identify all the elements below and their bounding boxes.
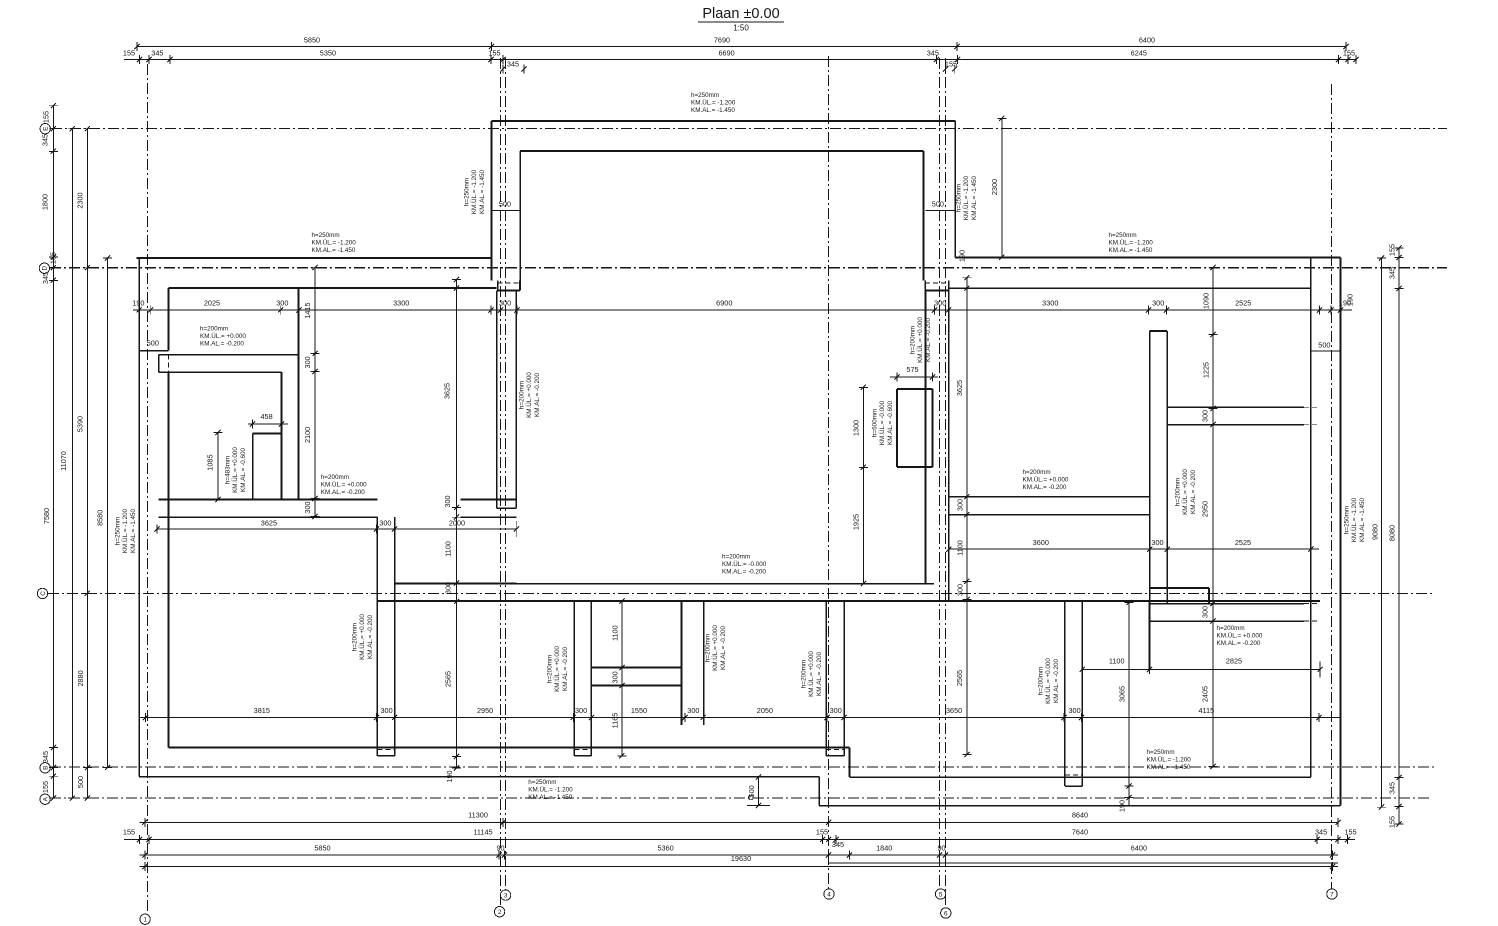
svg-text:500: 500 bbox=[932, 200, 944, 209]
svg-text:KM.ÜL.= -1.200: KM.ÜL.= -1.200 bbox=[962, 175, 970, 220]
svg-text:1840: 1840 bbox=[876, 844, 892, 853]
svg-text:155: 155 bbox=[1388, 244, 1397, 256]
svg-text:155: 155 bbox=[48, 252, 57, 264]
svg-text:KM.AL.= -0.200: KM.AL.= -0.200 bbox=[720, 626, 727, 670]
svg-text:300: 300 bbox=[1069, 706, 1081, 715]
svg-text:h=200mm: h=200mm bbox=[200, 326, 228, 333]
svg-text:E: E bbox=[43, 127, 50, 131]
svg-text:h=250mm: h=250mm bbox=[1344, 506, 1351, 534]
svg-text:KM.AL.= -1.450: KM.AL.= -1.450 bbox=[1359, 498, 1366, 542]
svg-text:155: 155 bbox=[945, 60, 957, 69]
svg-text:190: 190 bbox=[1346, 294, 1355, 306]
svg-text:KM.ÜL.= -0.000: KM.ÜL.= -0.000 bbox=[722, 560, 767, 568]
svg-text:h=250mm: h=250mm bbox=[1147, 749, 1175, 756]
svg-text:300: 300 bbox=[381, 706, 393, 715]
svg-text:6: 6 bbox=[944, 910, 948, 917]
svg-text:h=250mm: h=250mm bbox=[115, 517, 122, 545]
svg-text:6245: 6245 bbox=[1131, 49, 1147, 58]
svg-text:KM.AL.= -0.200: KM.AL.= -0.200 bbox=[1190, 470, 1197, 514]
svg-text:345: 345 bbox=[927, 49, 939, 58]
svg-text:300: 300 bbox=[303, 501, 312, 513]
svg-text:KM.ÜL.= -1.200: KM.ÜL.= -1.200 bbox=[1147, 756, 1192, 764]
svg-text:KM.AL.= -0.200: KM.AL.= -0.200 bbox=[321, 489, 365, 496]
svg-text:190: 190 bbox=[445, 770, 454, 782]
svg-text:155: 155 bbox=[123, 49, 135, 58]
svg-text:3600: 3600 bbox=[1033, 538, 1049, 547]
svg-text:6900: 6900 bbox=[716, 299, 732, 308]
svg-text:345: 345 bbox=[151, 49, 163, 58]
svg-text:300: 300 bbox=[276, 299, 288, 308]
svg-text:2300: 2300 bbox=[76, 192, 85, 208]
svg-text:2100: 2100 bbox=[303, 427, 312, 443]
svg-text:KM.AL.= -1.450: KM.AL.= -1.450 bbox=[1109, 247, 1153, 254]
svg-text:1100: 1100 bbox=[444, 541, 453, 557]
svg-text:575: 575 bbox=[906, 365, 918, 374]
svg-text:h=200mm: h=200mm bbox=[519, 381, 526, 409]
svg-text:500: 500 bbox=[499, 200, 511, 209]
svg-text:h=200mm: h=200mm bbox=[1023, 469, 1051, 476]
svg-text:1800: 1800 bbox=[41, 194, 50, 210]
svg-text:h=250mm: h=250mm bbox=[1109, 232, 1137, 239]
svg-text:2565: 2565 bbox=[444, 671, 453, 687]
svg-text:1925: 1925 bbox=[852, 514, 861, 530]
svg-text:3: 3 bbox=[504, 893, 508, 900]
svg-text:300: 300 bbox=[934, 299, 946, 308]
svg-text:345: 345 bbox=[507, 60, 519, 69]
svg-text:KM.AL.= -0.200: KM.AL.= -0.200 bbox=[1053, 659, 1060, 703]
svg-text:7: 7 bbox=[1330, 891, 1334, 898]
svg-text:KM.AL.= -0.600: KM.AL.= -0.600 bbox=[240, 448, 247, 492]
svg-text:9080: 9080 bbox=[1371, 524, 1380, 540]
svg-text:155: 155 bbox=[488, 49, 500, 58]
svg-text:KM.AL.= -0.200: KM.AL.= -0.200 bbox=[1217, 640, 1261, 647]
svg-text:h=200mm: h=200mm bbox=[1175, 478, 1182, 506]
svg-text:1300: 1300 bbox=[852, 420, 861, 436]
svg-text:KM.AL.= -1.450: KM.AL.= -1.450 bbox=[528, 794, 572, 801]
svg-text:8580: 8580 bbox=[96, 510, 105, 526]
svg-text:KM.ÜL.= -0.000: KM.ÜL.= -0.000 bbox=[878, 400, 886, 445]
svg-text:11300: 11300 bbox=[468, 811, 488, 820]
svg-text:345: 345 bbox=[1315, 828, 1327, 837]
svg-text:C: C bbox=[40, 591, 47, 596]
svg-text:1100: 1100 bbox=[1109, 657, 1125, 666]
svg-text:1090: 1090 bbox=[1202, 293, 1211, 309]
svg-text:155: 155 bbox=[1345, 828, 1357, 837]
svg-text:300: 300 bbox=[687, 706, 699, 715]
svg-text:KM.AL.= -0.200: KM.AL.= -0.200 bbox=[1023, 484, 1067, 491]
svg-text:KM.ÜL.= -1.200: KM.ÜL.= -1.200 bbox=[121, 508, 129, 553]
svg-text:KM.ÜL.= +0.000: KM.ÜL.= +0.000 bbox=[200, 332, 246, 340]
svg-text:h=200mm: h=200mm bbox=[801, 660, 808, 688]
svg-text:300: 300 bbox=[444, 582, 453, 594]
svg-text:190: 190 bbox=[958, 250, 967, 262]
svg-text:8080: 8080 bbox=[1388, 525, 1397, 541]
svg-text:300: 300 bbox=[830, 706, 842, 715]
svg-text:KM.AL.= -1.450: KM.AL.= -1.450 bbox=[1147, 764, 1191, 771]
svg-text:300: 300 bbox=[303, 356, 312, 368]
svg-text:2025: 2025 bbox=[204, 299, 220, 308]
svg-text:h=200mm: h=200mm bbox=[321, 474, 349, 481]
svg-text:4115: 4115 bbox=[1198, 706, 1214, 715]
svg-text:KM.ÜL.= +0.000: KM.ÜL.= +0.000 bbox=[553, 646, 561, 692]
svg-text:KM.AL.= -1.450: KM.AL.= -1.450 bbox=[130, 509, 137, 553]
svg-text:KM.ÜL.= -1.200: KM.ÜL.= -1.200 bbox=[528, 786, 573, 794]
svg-text:KM.ÜL.= -1.200: KM.ÜL.= -1.200 bbox=[1350, 497, 1358, 542]
svg-text:2300: 2300 bbox=[990, 179, 999, 195]
svg-text:KM.ÜL.= +0.000: KM.ÜL.= +0.000 bbox=[321, 481, 367, 489]
svg-text:6400: 6400 bbox=[1131, 844, 1147, 853]
svg-text:1:50: 1:50 bbox=[733, 24, 749, 33]
svg-text:300: 300 bbox=[379, 519, 391, 528]
svg-text:3625: 3625 bbox=[443, 383, 452, 399]
svg-text:KM.AL.= -0.200: KM.AL.= -0.200 bbox=[367, 615, 374, 659]
svg-text:345: 345 bbox=[41, 134, 50, 146]
svg-text:5850: 5850 bbox=[314, 844, 330, 853]
svg-text:155: 155 bbox=[42, 111, 51, 123]
svg-text:11145: 11145 bbox=[473, 828, 492, 837]
svg-text:KM.ÜL.= +0.000: KM.ÜL.= +0.000 bbox=[1217, 632, 1263, 640]
svg-text:3300: 3300 bbox=[393, 299, 409, 308]
svg-text:11070: 11070 bbox=[59, 451, 68, 471]
svg-text:KM.ÜL.= +0.000: KM.ÜL.= +0.000 bbox=[1044, 658, 1052, 704]
svg-text:5390: 5390 bbox=[76, 416, 85, 432]
svg-text:KM.ÜL.= +0.000: KM.ÜL.= +0.000 bbox=[916, 317, 924, 363]
svg-text:300: 300 bbox=[1151, 538, 1163, 547]
svg-text:KM.AL.= -1.450: KM.AL.= -1.450 bbox=[971, 176, 978, 220]
svg-text:5360: 5360 bbox=[657, 844, 673, 853]
svg-text:D: D bbox=[42, 266, 49, 271]
svg-text:500: 500 bbox=[76, 776, 85, 788]
svg-text:KM.ÜL.= +0.000: KM.ÜL.= +0.000 bbox=[231, 447, 239, 493]
svg-text:KM.AL.= -0.600: KM.AL.= -0.600 bbox=[887, 401, 894, 445]
svg-text:300: 300 bbox=[956, 584, 965, 596]
svg-text:2525: 2525 bbox=[1235, 299, 1251, 308]
svg-text:5350: 5350 bbox=[320, 49, 336, 58]
svg-text:2880: 2880 bbox=[76, 670, 85, 686]
svg-text:300: 300 bbox=[1201, 410, 1210, 422]
svg-text:KM.ÜL.= +0.000: KM.ÜL.= +0.000 bbox=[358, 614, 366, 660]
svg-text:h=200mm: h=200mm bbox=[705, 634, 712, 662]
svg-text:300: 300 bbox=[1152, 299, 1164, 308]
svg-text:B: B bbox=[42, 766, 49, 770]
svg-text:1100: 1100 bbox=[611, 625, 620, 641]
svg-text:7690: 7690 bbox=[714, 36, 730, 45]
svg-text:90: 90 bbox=[937, 844, 945, 853]
svg-text:A: A bbox=[42, 796, 49, 801]
svg-text:3625: 3625 bbox=[261, 519, 277, 528]
svg-text:345: 345 bbox=[1388, 782, 1397, 794]
svg-text:1100: 1100 bbox=[956, 540, 965, 556]
svg-text:KM.ÜL.= -1.200: KM.ÜL.= -1.200 bbox=[470, 169, 478, 214]
svg-text:155: 155 bbox=[816, 828, 828, 837]
svg-text:1225: 1225 bbox=[1202, 362, 1211, 378]
svg-text:1550: 1550 bbox=[631, 706, 647, 715]
svg-text:h=600mm: h=600mm bbox=[872, 409, 879, 437]
svg-text:3300: 3300 bbox=[1042, 299, 1058, 308]
svg-text:190: 190 bbox=[132, 299, 144, 308]
svg-text:KM.AL.= -0.200: KM.AL.= -0.200 bbox=[722, 569, 766, 576]
svg-text:h=200mm: h=200mm bbox=[352, 623, 359, 651]
svg-text:155: 155 bbox=[123, 828, 135, 837]
svg-text:345: 345 bbox=[41, 751, 50, 763]
svg-text:1: 1 bbox=[143, 917, 147, 924]
svg-text:5850: 5850 bbox=[304, 36, 320, 45]
svg-text:KM.AL.= -0.200: KM.AL.= -0.200 bbox=[534, 373, 541, 417]
svg-text:KM.AL.= -0.200: KM.AL.= -0.200 bbox=[562, 647, 569, 691]
svg-text:h=200mm: h=200mm bbox=[1217, 625, 1245, 632]
svg-text:h=483mm: h=483mm bbox=[225, 456, 232, 484]
svg-text:458: 458 bbox=[261, 412, 273, 421]
svg-text:KM.ÜL.= -1.200: KM.ÜL.= -1.200 bbox=[691, 99, 736, 107]
svg-text:8640: 8640 bbox=[1072, 811, 1088, 820]
svg-text:2405: 2405 bbox=[1201, 686, 1210, 702]
svg-text:300: 300 bbox=[443, 495, 452, 507]
svg-text:h=200mm: h=200mm bbox=[722, 554, 750, 561]
svg-text:2950: 2950 bbox=[477, 706, 493, 715]
svg-text:1165: 1165 bbox=[611, 713, 620, 729]
svg-text:KM.ÜL.= -1.200: KM.ÜL.= -1.200 bbox=[312, 239, 357, 247]
svg-text:3625: 3625 bbox=[955, 380, 964, 396]
svg-text:3815: 3815 bbox=[254, 706, 270, 715]
svg-text:KM.ÜL.= -1.200: KM.ÜL.= -1.200 bbox=[1109, 239, 1154, 247]
svg-text:Plaan ±0.00: Plaan ±0.00 bbox=[702, 6, 779, 22]
svg-text:KM.AL.= -0.200: KM.AL.= -0.200 bbox=[200, 341, 244, 348]
svg-text:300: 300 bbox=[611, 671, 620, 683]
svg-text:500: 500 bbox=[147, 339, 159, 348]
svg-text:h=250mm: h=250mm bbox=[312, 232, 340, 239]
svg-text:155: 155 bbox=[1388, 816, 1397, 828]
svg-text:KM.ÜL.= +0.000: KM.ÜL.= +0.000 bbox=[807, 651, 815, 697]
svg-text:2050: 2050 bbox=[757, 706, 773, 715]
svg-text:300: 300 bbox=[1201, 606, 1210, 618]
svg-text:KM.AL.= -1.450: KM.AL.= -1.450 bbox=[479, 170, 486, 214]
svg-text:3065: 3065 bbox=[1118, 686, 1127, 702]
svg-text:h=250mm: h=250mm bbox=[956, 184, 963, 212]
svg-text:KM.AL.= -0.200: KM.AL.= -0.200 bbox=[816, 652, 823, 696]
svg-text:300: 300 bbox=[499, 299, 511, 308]
svg-text:7640: 7640 bbox=[1072, 828, 1088, 837]
svg-text:1085: 1085 bbox=[206, 454, 215, 470]
svg-text:KM.AL.= -0.200: KM.AL.= -0.200 bbox=[925, 318, 932, 362]
svg-text:h=250mm: h=250mm bbox=[691, 92, 719, 99]
svg-text:h=250mm: h=250mm bbox=[464, 178, 471, 206]
svg-text:KM.AL.= -1.450: KM.AL.= -1.450 bbox=[312, 247, 356, 254]
svg-text:300: 300 bbox=[956, 499, 965, 511]
svg-text:155: 155 bbox=[41, 781, 50, 793]
svg-text:155: 155 bbox=[1343, 49, 1355, 58]
svg-text:KM.ÜL.= +0.000: KM.ÜL.= +0.000 bbox=[525, 372, 533, 418]
svg-text:345: 345 bbox=[832, 840, 844, 849]
svg-text:4: 4 bbox=[827, 891, 831, 898]
svg-text:90: 90 bbox=[496, 844, 504, 853]
svg-text:h=200mm: h=200mm bbox=[547, 655, 554, 683]
svg-text:2825: 2825 bbox=[1226, 657, 1242, 666]
svg-text:345: 345 bbox=[41, 272, 50, 284]
svg-text:KM.ÜL.= +0.000: KM.ÜL.= +0.000 bbox=[1181, 469, 1189, 515]
svg-text:1415: 1415 bbox=[303, 302, 312, 318]
svg-text:6690: 6690 bbox=[718, 49, 734, 58]
svg-text:19630: 19630 bbox=[731, 854, 751, 863]
svg-text:h=250mm: h=250mm bbox=[528, 779, 556, 786]
svg-text:7580: 7580 bbox=[42, 508, 51, 524]
svg-text:3650: 3650 bbox=[946, 706, 962, 715]
svg-text:5: 5 bbox=[939, 891, 943, 898]
svg-text:h=200mm: h=200mm bbox=[1038, 667, 1045, 695]
svg-text:KM.ÜL.= +0.000: KM.ÜL.= +0.000 bbox=[1023, 476, 1069, 484]
svg-text:KM.ÜL.= +0.000: KM.ÜL.= +0.000 bbox=[711, 625, 719, 671]
svg-text:345: 345 bbox=[1388, 267, 1397, 279]
svg-text:2: 2 bbox=[498, 909, 502, 916]
svg-text:300: 300 bbox=[575, 706, 587, 715]
svg-text:2565: 2565 bbox=[955, 670, 964, 686]
svg-text:2950: 2950 bbox=[1201, 501, 1210, 517]
svg-text:2525: 2525 bbox=[1235, 538, 1251, 547]
svg-text:6400: 6400 bbox=[1139, 36, 1155, 45]
svg-text:KM.AL.= -1.450: KM.AL.= -1.450 bbox=[691, 107, 735, 114]
svg-text:h=200mm: h=200mm bbox=[910, 326, 917, 354]
svg-text:190: 190 bbox=[1118, 800, 1127, 812]
svg-text:500: 500 bbox=[1318, 341, 1330, 350]
